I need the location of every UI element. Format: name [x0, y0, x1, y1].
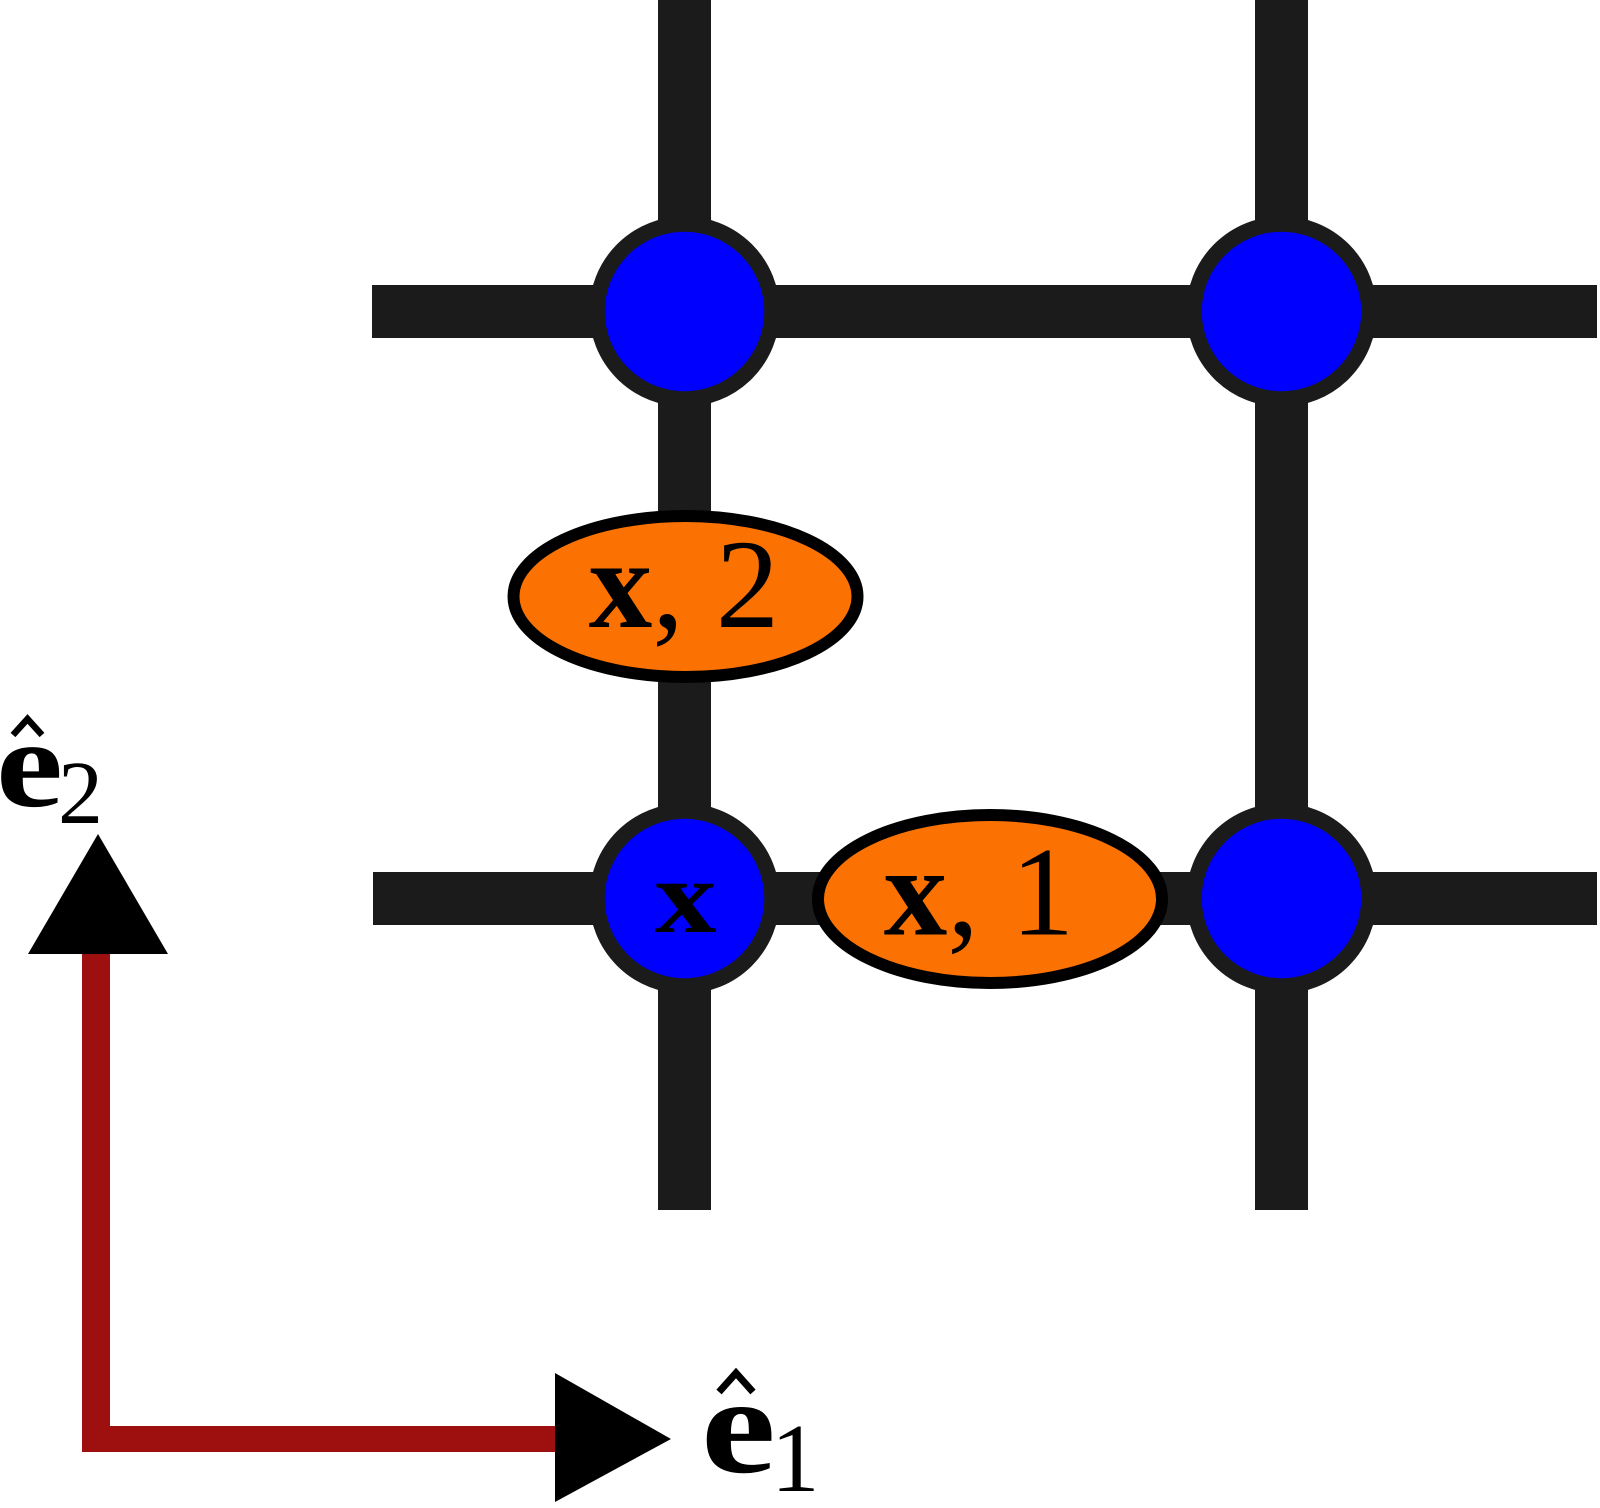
link label ellipse x,1 — [818, 815, 1162, 983]
svg-text:1: 1 — [771, 1405, 820, 1508]
svg-text:e: e — [701, 1350, 776, 1503]
wire vertical link line right — [1255, 0, 1308, 1210]
wire horizontal link line top — [372, 285, 1597, 338]
node site x bottom-left — [597, 811, 772, 986]
axis e2 red shaft — [82, 950, 110, 1451]
axis label e2 hat — [13, 719, 42, 735]
wire horizontal link line bottom — [373, 872, 1597, 925]
axis label e2 letter — [0, 694, 63, 833]
node site top-left — [597, 224, 772, 399]
axis e1 red shaft — [82, 1426, 555, 1452]
wire vertical link line left (x-direction 2 links) — [658, 0, 711, 1210]
axis label e1 hat — [719, 1373, 753, 1392]
link label ellipse x,2 — [514, 516, 858, 677]
axis e2 arrowhead — [28, 834, 168, 954]
svg-text:x, 1: x, 1 — [884, 823, 1075, 963]
svg-text:e: e — [0, 694, 63, 833]
axis label e1 letter — [701, 1350, 776, 1503]
node site top-right — [1194, 224, 1369, 399]
axis e1 arrowhead — [555, 1373, 671, 1502]
svg-text:x, 2: x, 2 — [589, 515, 780, 655]
svg-text:x: x — [654, 839, 716, 955]
svg-text:2: 2 — [58, 744, 103, 843]
node site bottom-right — [1194, 811, 1369, 986]
node label x — [654, 839, 716, 955]
